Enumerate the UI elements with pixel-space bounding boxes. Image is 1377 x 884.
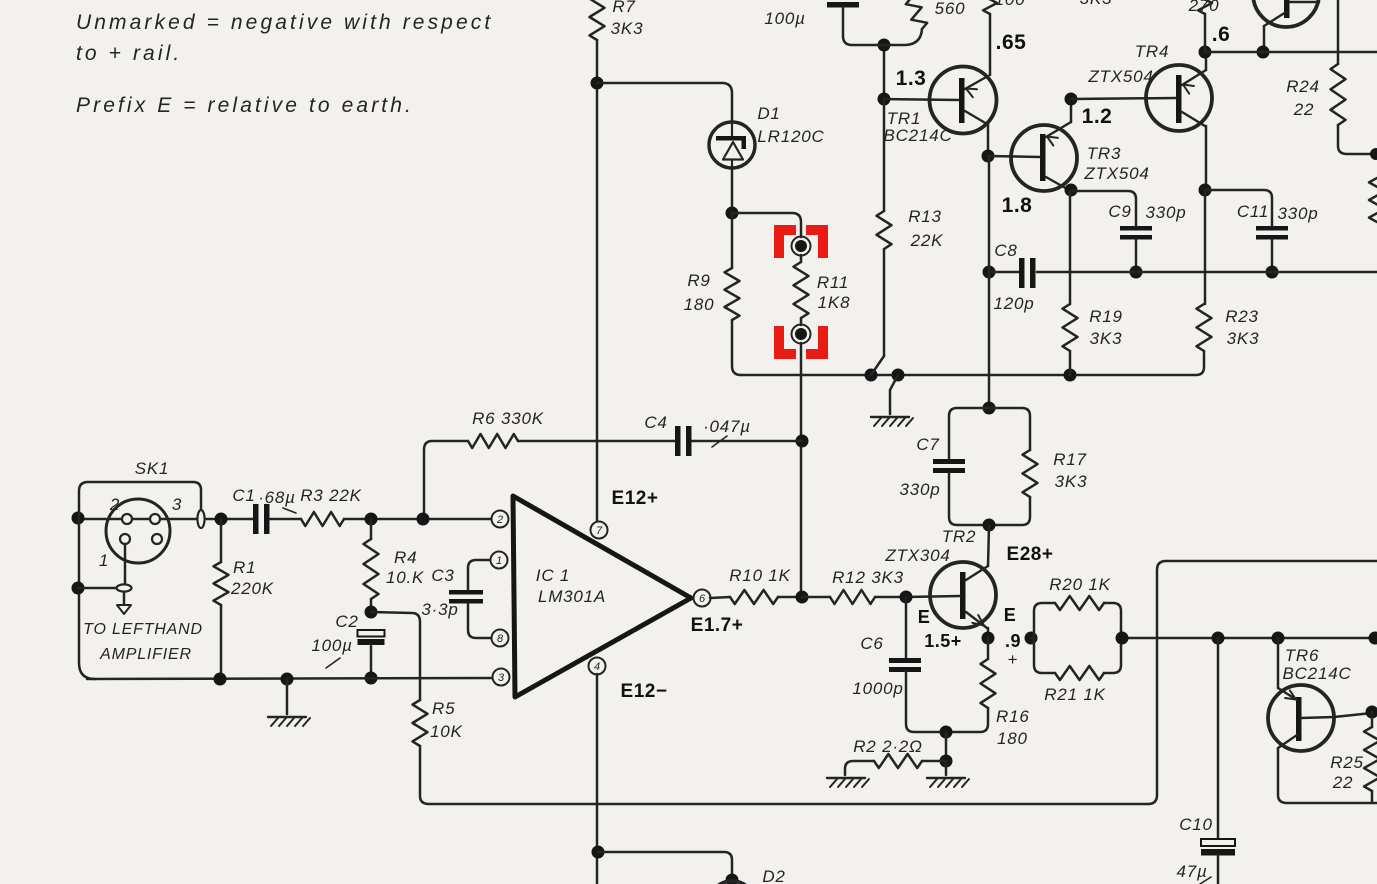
svg-text:+: +	[1008, 650, 1019, 669]
svg-text:E: E	[1004, 605, 1017, 625]
svg-text:270: 270	[1188, 0, 1220, 15]
svg-text:R10 1K: R10 1K	[729, 566, 791, 585]
svg-text:R2 2·2Ω: R2 2·2Ω	[853, 737, 923, 756]
svg-text:6: 6	[699, 593, 706, 605]
svg-text:1000p: 1000p	[852, 679, 903, 698]
svg-text:C1: C1	[232, 486, 255, 505]
svg-text:22K: 22K	[910, 231, 944, 250]
svg-text:3K3: 3K3	[1080, 0, 1113, 8]
svg-text:D2: D2	[762, 867, 785, 884]
svg-text:Unmarked = negative with respe: Unmarked = negative with respect	[76, 11, 493, 34]
svg-text:IC 1: IC 1	[536, 566, 570, 585]
svg-text:LM301A: LM301A	[538, 587, 606, 606]
svg-text:R6 330K: R6 330K	[472, 409, 544, 428]
svg-text:R9: R9	[687, 271, 710, 290]
svg-text:D1: D1	[757, 104, 780, 123]
svg-text:ZTX504: ZTX504	[1087, 67, 1153, 86]
svg-text:.65: .65	[996, 31, 1027, 54]
svg-text:4: 4	[594, 661, 600, 673]
svg-text:10K: 10K	[430, 722, 463, 741]
svg-text:.9: .9	[1005, 631, 1021, 651]
svg-text:TR4: TR4	[1135, 42, 1170, 61]
svg-text:1: 1	[496, 555, 502, 567]
svg-text:R12 3K3: R12 3K3	[832, 568, 904, 587]
svg-text:C10: C10	[1179, 815, 1213, 834]
svg-text:C4: C4	[644, 413, 667, 432]
svg-text:AMPLIFIER: AMPLIFIER	[99, 646, 192, 663]
svg-text:3K3: 3K3	[611, 19, 644, 38]
svg-text:R23: R23	[1225, 307, 1259, 326]
svg-text:C6: C6	[860, 634, 883, 653]
svg-text:220K: 220K	[230, 579, 274, 598]
svg-text:8: 8	[497, 633, 504, 645]
svg-text:to + rail.: to + rail.	[76, 42, 182, 65]
svg-text:47µ: 47µ	[1176, 862, 1207, 881]
svg-text:R4: R4	[394, 548, 417, 567]
svg-text:R16: R16	[996, 707, 1030, 726]
svg-text:TR6: TR6	[1285, 646, 1320, 665]
svg-text:100µ: 100µ	[764, 9, 805, 28]
svg-text:560: 560	[935, 0, 966, 18]
svg-text:R7: R7	[612, 0, 635, 16]
svg-text:10.K: 10.K	[386, 568, 424, 587]
svg-text:120p: 120p	[993, 294, 1034, 313]
svg-text:R11: R11	[817, 273, 849, 292]
svg-text:7: 7	[596, 525, 603, 537]
svg-text:E1.7+: E1.7+	[691, 615, 744, 636]
svg-text:1: 1	[99, 551, 109, 570]
svg-text:330p: 330p	[1277, 204, 1318, 223]
svg-text:ZTX504: ZTX504	[1083, 164, 1149, 183]
svg-text:E12+: E12+	[612, 488, 659, 509]
svg-text:R13: R13	[908, 207, 942, 226]
svg-text:330p: 330p	[899, 480, 940, 499]
svg-text:3: 3	[172, 495, 182, 514]
svg-text:1.5+: 1.5+	[924, 631, 962, 651]
svg-text:1.8: 1.8	[1002, 194, 1033, 217]
svg-text:SK1: SK1	[135, 459, 170, 478]
svg-text:R21 1K: R21 1K	[1044, 685, 1106, 704]
svg-text:3: 3	[498, 672, 505, 684]
svg-text:R25: R25	[1330, 753, 1364, 772]
svg-text:180: 180	[684, 295, 715, 314]
svg-text:R1: R1	[233, 558, 256, 577]
svg-text:TO LEFTHAND: TO LEFTHAND	[83, 621, 203, 638]
svg-text:1.3: 1.3	[896, 67, 927, 90]
svg-text:LR120C: LR120C	[757, 127, 824, 146]
svg-text:BC214C: BC214C	[1282, 664, 1351, 683]
svg-text:1.2: 1.2	[1082, 105, 1113, 128]
svg-text:C8: C8	[994, 241, 1017, 260]
svg-text:330p: 330p	[1145, 203, 1186, 222]
svg-text:R5: R5	[432, 699, 455, 718]
svg-text:2: 2	[109, 495, 120, 514]
svg-text:2: 2	[496, 514, 503, 526]
svg-text:C7: C7	[916, 435, 939, 454]
svg-text:E12−: E12−	[621, 681, 668, 702]
svg-text:22: 22	[1293, 100, 1315, 119]
svg-text:3K3: 3K3	[1090, 329, 1123, 348]
svg-text:C3: C3	[431, 566, 454, 585]
svg-text:1K8: 1K8	[818, 293, 851, 312]
svg-text:R19: R19	[1089, 307, 1123, 326]
svg-text:R24: R24	[1286, 77, 1320, 96]
svg-text:·047µ: ·047µ	[703, 417, 751, 436]
svg-text:22: 22	[1332, 773, 1354, 792]
svg-text:C11: C11	[1237, 202, 1269, 221]
svg-text:E28+: E28+	[1007, 544, 1054, 565]
svg-text:.6: .6	[1212, 23, 1231, 46]
svg-text:100µ: 100µ	[311, 636, 352, 655]
svg-text:100: 100	[995, 0, 1026, 9]
svg-text:TR2: TR2	[942, 527, 977, 546]
svg-text:180: 180	[997, 729, 1028, 748]
svg-text:BC214C: BC214C	[883, 126, 952, 145]
svg-text:ZTX304: ZTX304	[884, 546, 950, 565]
svg-text:TR3: TR3	[1087, 144, 1122, 163]
svg-text:C2: C2	[335, 612, 358, 631]
svg-text:R17: R17	[1053, 450, 1087, 469]
svg-text:R20 1K: R20 1K	[1049, 575, 1111, 594]
svg-text:3K3: 3K3	[1055, 472, 1088, 491]
svg-text:·68µ: ·68µ	[258, 488, 296, 507]
svg-text:C9: C9	[1108, 202, 1131, 221]
svg-text:R3 22K: R3 22K	[300, 486, 362, 505]
svg-text:3K3: 3K3	[1227, 329, 1260, 348]
svg-text:Prefix E = relative to earth.: Prefix E = relative to earth.	[76, 94, 414, 117]
svg-text:E: E	[918, 607, 931, 627]
